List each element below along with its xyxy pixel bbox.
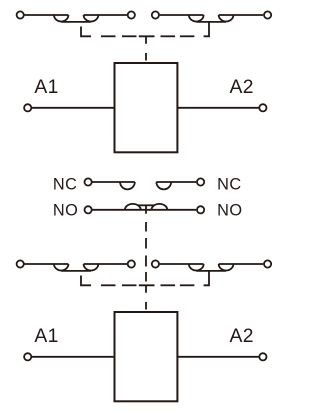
movable bridge hump, NO left (125, 204, 141, 210)
wire (160, 263, 204, 265)
linkage dash (161, 35, 176, 37)
wire (156, 181, 196, 183)
wire (92, 209, 196, 211)
terminal circle A1 (upper) (24, 104, 31, 111)
movable bridge hump, NO right (152, 204, 168, 210)
terminal circle, upper-right main contact, left (152, 11, 159, 18)
svg-text:NO: NO (217, 201, 242, 219)
svg-text:NC: NC (217, 176, 242, 194)
movable bridge (lower-left main contact) (61, 270, 91, 272)
wire (25, 14, 69, 16)
terminal circle, upper-right main contact, right (264, 11, 271, 18)
linkage dash (101, 35, 116, 37)
linkage dash (161, 284, 176, 286)
svg-text:A1: A1 (34, 77, 58, 98)
terminal circle A1 (lower) (24, 353, 31, 360)
fixed contact cup 2 (lower-left main contact) (84, 264, 99, 271)
wire (92, 181, 134, 183)
terminal circle, NC contact, right (197, 178, 204, 185)
mechanical linkage, upper unit: right corner (204, 22, 209, 36)
wire (84, 14, 128, 16)
terminal circle, upper-left main contact, left (17, 11, 24, 18)
wire A1 to coil (32, 356, 114, 358)
mechanical linkage, upper unit: left corner (81, 27, 91, 37)
terminal circle, upper-left main contact, right (128, 11, 135, 18)
svg-text:A2: A2 (230, 77, 254, 98)
wire (25, 263, 69, 265)
fixed contact cup 2 (upper-right main contact) (219, 15, 234, 22)
fixed contact cup, NC right (156, 182, 171, 189)
linkage tee (139, 285, 155, 293)
fixed contact cup 1 (lower-left main contact) (54, 264, 68, 271)
linkage dash (145, 238, 147, 249)
terminal circle, lower-right main contact, left (152, 260, 159, 267)
terminal circle, lower-left main contact, left (17, 260, 24, 267)
terminal circle A2 (upper) (259, 104, 266, 111)
movable bridge (lower-right main contact) (196, 270, 226, 272)
linkage dash (180, 35, 195, 37)
wire coil to A2 (178, 356, 259, 358)
terminal circle, NO contact, right (197, 206, 204, 213)
actuator stem, NO contact (145, 205, 147, 213)
linkage tee (139, 36, 155, 44)
svg-text:NO: NO (53, 201, 78, 219)
linkage dash down to coil (145, 302, 147, 310)
linkage dash (145, 272, 147, 282)
wire (84, 263, 128, 265)
mechanical linkage, lower unit: right corner (204, 271, 209, 285)
wire (160, 14, 204, 16)
coil K2 (lower operating coil) (115, 312, 178, 401)
bridge bar, NO contact (138, 204, 154, 206)
terminal circle, NO contact, left (85, 206, 92, 213)
fixed contact cup 2 (upper-left main contact) (84, 15, 99, 22)
fixed contact cup 1 (upper-left main contact) (54, 15, 68, 22)
movable bridge (upper-right main contact) (196, 21, 226, 23)
linkage dash NO to lower unit (145, 222, 147, 232)
svg-text:NC: NC (53, 176, 78, 194)
wire coil to A2 (178, 107, 259, 109)
linkage dash (122, 284, 137, 286)
linkage dash (180, 284, 195, 286)
wire (219, 14, 264, 16)
fixed contact cup 1 (upper-right main contact) (189, 15, 204, 22)
linkage dash down to coil (145, 53, 147, 61)
linkage dash (101, 284, 116, 286)
svg-text:A1: A1 (34, 326, 58, 347)
terminal circle, lower-left main contact, right (128, 260, 135, 267)
wire (219, 263, 264, 265)
terminal circle, NC contact, left (85, 178, 92, 185)
fixed contact cup, NC left (120, 182, 135, 189)
terminal circle, lower-right main contact, right (264, 260, 271, 267)
fixed contact cup 1 (lower-right main contact) (189, 264, 204, 271)
movable bridge (upper-left main contact) (61, 21, 91, 23)
linkage dash (145, 256, 147, 267)
svg-text:A2: A2 (230, 326, 254, 347)
terminal circle A2 (lower) (259, 353, 266, 360)
mechanical linkage, lower unit: left corner (81, 276, 91, 286)
coil K1 (upper operating coil) (115, 63, 178, 152)
wire A1 to coil (32, 107, 114, 109)
linkage dash (122, 35, 137, 37)
fixed contact cup 2 (lower-right main contact) (219, 264, 234, 271)
